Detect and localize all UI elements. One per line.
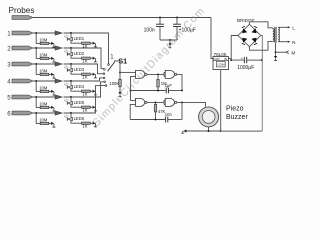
svg-text:10M: 10M <box>39 118 48 123</box>
svg-text:1K: 1K <box>82 123 87 128</box>
resistor 1M <box>157 80 159 87</box>
probe P1 <box>12 31 33 35</box>
wire 47K stub <box>155 102 157 104</box>
wire buffer 1 output to switch <box>64 33 109 64</box>
svg-text:LED4: LED4 <box>74 84 85 89</box>
svg-text:1K: 1K <box>82 58 87 63</box>
wire LED3 to 1K <box>71 72 81 74</box>
svg-text:1K: 1K <box>82 91 87 96</box>
wire 78L05 IN <box>229 58 244 60</box>
buffer U1 <box>55 31 62 35</box>
wire osc2 feedback bottom <box>130 119 165 121</box>
bridge diode D4 <box>252 38 258 45</box>
ground mains earth <box>274 56 277 60</box>
buffer U4 <box>55 79 62 83</box>
wire nand3 enable input <box>131 91 136 101</box>
switch S1 wiper <box>108 62 115 71</box>
node nand4 out junction <box>181 101 183 103</box>
bridge diode D3 <box>242 38 248 45</box>
transformer T1 core <box>275 27 276 43</box>
svg-text:OUT: OUT <box>213 57 220 61</box>
gate U2B nand2 input tie <box>164 72 165 76</box>
svg-text:10M: 10M <box>39 38 48 43</box>
wire osc1 feedback bottom <box>131 90 166 92</box>
node 47K bottom junction <box>155 119 157 121</box>
ground row 3 input <box>51 73 55 78</box>
ground row 6 input <box>51 122 55 127</box>
probe P2 <box>12 46 33 50</box>
buffer U2 <box>55 46 62 50</box>
transformer T1 secondary <box>273 28 274 42</box>
wire buffer 5 output to switch <box>64 82 104 97</box>
wire 1K to ground row 1 <box>90 42 92 44</box>
regulator 78L05 box <box>213 57 229 70</box>
svg-text:LED5: LED5 <box>74 100 85 105</box>
gate U2D nand4 input tie <box>164 100 165 104</box>
wire probe 4 to buffer <box>33 80 55 82</box>
switch S1 contacts <box>108 64 110 66</box>
capacitor 10n <box>166 117 168 123</box>
wire 1K to ground row 4 <box>90 90 92 92</box>
wire top supply rail <box>33 17 211 19</box>
resistor 1K row 4 <box>82 90 91 92</box>
wire LED stub 5 <box>70 97 72 101</box>
wire nand1 feedback input <box>131 76 136 90</box>
node junction probe 6 <box>35 112 37 114</box>
wire pole to gate input <box>120 71 136 73</box>
svg-text:10M: 10M <box>39 69 48 74</box>
wire LED stub 1 <box>70 33 72 37</box>
gate U2A nand1 <box>136 70 148 78</box>
LED2 <box>64 49 72 56</box>
resistor 1K row 3 <box>82 73 91 75</box>
node 1M bottom junction <box>157 90 159 92</box>
resistor 10M row 3 <box>40 73 49 75</box>
wire bridge plus to regulator <box>231 36 238 61</box>
node nand1 out junction <box>157 73 159 75</box>
node nand2 drop junction <box>181 89 183 91</box>
wire 10M branch 2 <box>36 48 40 58</box>
svg-text:COM: COM <box>217 63 225 67</box>
wire nand2 output <box>177 74 182 90</box>
wire 10M branch 3 <box>36 64 40 74</box>
svg-text:LED6: LED6 <box>74 116 85 121</box>
wire terminal M <box>276 51 287 53</box>
svg-text:LED1: LED1 <box>74 36 85 41</box>
terminal M arrow <box>286 51 289 54</box>
wire probe 5 to buffer <box>33 96 55 98</box>
ground 100K <box>118 92 121 96</box>
LED6 <box>64 114 72 121</box>
node junction probe 3 <box>35 63 37 65</box>
svg-text:10n: 10n <box>165 112 173 117</box>
wire probe 3 to buffer <box>33 63 55 65</box>
wire nand3 output <box>147 101 164 103</box>
wire 10M branch 4 <box>36 81 40 91</box>
ground row 1 led <box>93 42 97 47</box>
ground row 4 led <box>93 90 97 95</box>
resistor 10M row 2 <box>40 57 49 59</box>
wire gnd vertical <box>261 60 263 131</box>
wire 10M branch 1 <box>36 33 40 43</box>
node COM rail junction <box>220 130 222 132</box>
capacitor 100uF <box>173 18 181 41</box>
terminal L arrow <box>288 26 291 28</box>
wire LED stub 4 <box>70 81 72 85</box>
resistor 1K row 6 <box>82 122 91 124</box>
svg-text:Piezo: Piezo <box>226 106 244 113</box>
ground row 4 input <box>51 90 55 95</box>
wire bridge minus to gnd <box>261 36 263 61</box>
gate U2B nand2 <box>165 70 177 78</box>
wire earth drop <box>275 43 277 53</box>
wire 10M to ground row 2 <box>49 57 51 59</box>
wire nand4 out drop <box>181 102 183 119</box>
wire buzzer to rail <box>208 127 210 131</box>
probe common <box>12 16 33 20</box>
wire 10M to ground row 1 <box>49 42 51 44</box>
wire 1K to ground row 6 <box>90 122 92 124</box>
resistor 47K <box>154 105 156 112</box>
ground row 2 input <box>51 57 55 62</box>
svg-text:10M: 10M <box>39 53 48 58</box>
terminal N arrow <box>288 41 291 43</box>
resistor 10M row 1 <box>40 42 49 44</box>
svg-text:IN: IN <box>224 57 227 61</box>
wire 1M stub <box>157 74 159 79</box>
wire pole to 100K <box>119 72 121 79</box>
svg-text:10M: 10M <box>39 102 48 107</box>
svg-text:M: M <box>291 51 295 56</box>
wire 1000uF to gnd line <box>247 59 262 61</box>
node junction probe 4 <box>35 80 37 82</box>
wire LED5 to 1K <box>71 105 81 107</box>
wire caps ground stub <box>169 40 171 43</box>
transformer T1 primary <box>278 27 279 41</box>
wire 10M branch 6 <box>36 113 40 123</box>
LED3 <box>64 65 72 72</box>
node earth junction <box>275 51 277 53</box>
wire LED1 to 1K <box>71 41 81 43</box>
ground filter caps <box>168 43 171 47</box>
svg-text:Buzzer: Buzzer <box>226 114 248 121</box>
ground row 2 led <box>93 57 97 62</box>
node gnd line junction <box>261 59 263 61</box>
node IN junction <box>230 59 232 61</box>
LED5 <box>64 98 72 105</box>
resistor 10M row 5 <box>40 106 49 108</box>
node junction probe 2 <box>35 47 37 49</box>
node buzzer rail junction <box>208 130 210 132</box>
wire ground rail <box>186 130 221 132</box>
svg-text:6: 6 <box>7 111 11 118</box>
wire regulator OUT drop <box>211 18 213 59</box>
wire 100K to ground <box>119 87 121 92</box>
wire 10M to ground row 3 <box>49 73 51 75</box>
wire LED4 to 1K <box>71 89 81 91</box>
bridge diode D1 <box>242 26 248 33</box>
wire probe 1 to buffer <box>33 32 55 34</box>
wire S1 pole <box>115 61 120 73</box>
node pole junction <box>119 71 121 73</box>
node nand3 out junction <box>155 101 157 103</box>
svg-text:3: 3 <box>7 62 11 69</box>
svg-text:1: 1 <box>7 31 11 38</box>
buffer U5 <box>55 95 62 99</box>
ground row 1 input <box>51 42 55 47</box>
node LED junction 3 <box>70 63 72 65</box>
svg-text:1000µF: 1000µF <box>237 65 254 71</box>
ground row 5 input <box>51 106 55 111</box>
wire terminal N <box>278 41 288 43</box>
gate U2C nand3 <box>136 98 148 106</box>
svg-text:10M: 10M <box>39 86 48 91</box>
wire 10M to ground row 4 <box>49 90 51 92</box>
wire LED stub 6 <box>70 113 72 117</box>
wire LED6 to 1K <box>71 121 81 123</box>
wire 1K to ground row 5 <box>90 106 92 108</box>
wire 1K to ground row 3 <box>90 73 92 75</box>
bridge diode D2 <box>252 26 258 33</box>
node junction probe 5 <box>35 96 37 98</box>
capacitor 1uF <box>166 88 168 94</box>
wire LED stub 2 <box>70 48 72 52</box>
svg-text:4: 4 <box>7 79 11 86</box>
node cap junction top rail 100n <box>159 17 161 19</box>
node junction probe 1 <box>35 32 37 34</box>
capacitor 100n <box>156 18 164 41</box>
svg-text:+: + <box>241 56 243 60</box>
ground row 6 led <box>93 122 97 127</box>
ground row 5 led <box>93 106 97 111</box>
wire buffer 2 output to switch <box>64 48 104 68</box>
gate U2D nand4 <box>165 98 177 106</box>
buffer U3 <box>55 62 62 66</box>
wire LED2 to 1K <box>71 56 81 58</box>
wire 10M to ground row 6 <box>49 122 51 124</box>
svg-text:LED3: LED3 <box>74 67 85 72</box>
resistor 1K row 1 <box>82 42 91 44</box>
probe P6 <box>12 111 33 115</box>
svg-text:100n: 100n <box>144 27 155 33</box>
node caps ground junction <box>169 39 171 41</box>
svg-text:N: N <box>292 40 295 45</box>
wire terminal L <box>278 26 288 28</box>
wire earth to ground <box>275 52 277 56</box>
svg-text:2: 2 <box>7 46 11 53</box>
wire probe 6 to buffer <box>33 112 55 114</box>
wire nand3 feedback input <box>130 104 135 119</box>
wire 47K bottom <box>155 112 157 120</box>
probe P5 <box>12 95 33 99</box>
wire 1K to ground row 2 <box>90 57 92 59</box>
resistor 1K row 2 <box>82 57 91 59</box>
node cap junction top rail 100uF <box>176 17 178 19</box>
node LED junction 5 <box>70 96 72 98</box>
svg-text:1µF: 1µF <box>165 83 173 88</box>
resistor 10M row 4 <box>40 90 49 92</box>
wire cap to nand2 drop <box>168 90 182 92</box>
wire nand4 output to buzzer <box>177 102 206 107</box>
resistor 10M row 6 <box>40 122 49 124</box>
svg-text:100K: 100K <box>109 81 119 86</box>
svg-text:Probes: Probes <box>9 6 35 15</box>
wire caps ground bus <box>160 39 177 41</box>
svg-text:5: 5 <box>7 95 11 102</box>
node LED junction 2 <box>70 47 72 49</box>
capacitor 1000uF <box>244 57 246 63</box>
wire bridge AC top <box>249 22 272 28</box>
wire ground rail gray segment <box>221 130 262 132</box>
wire buffer 3 output to switch <box>64 64 104 74</box>
wire 1M bottom <box>157 87 159 91</box>
resistor 1K row 5 <box>82 106 91 108</box>
LED1 <box>64 34 72 41</box>
wire nand1 output <box>147 73 164 75</box>
svg-text:L: L <box>292 26 295 31</box>
svg-text:1K: 1K <box>82 74 87 79</box>
piezo buzzer LS1 <box>199 107 219 127</box>
node feedback junction <box>130 90 132 92</box>
bridge rectifier diamond <box>238 24 261 46</box>
wire bridge AC bottom <box>249 41 272 50</box>
wire 10M branch 5 <box>36 97 40 107</box>
wire 78L05 COM to ground rail <box>220 70 222 131</box>
wire buffer 6 output to switch <box>64 86 106 113</box>
probe P3 <box>12 62 33 66</box>
LED4 <box>64 82 72 89</box>
resistor 100K <box>119 79 121 86</box>
wire LED stub 3 <box>70 64 72 68</box>
wire 10n to nand4 drop <box>168 119 182 121</box>
buffer U6 <box>55 111 62 115</box>
probe P4 <box>12 79 33 83</box>
ground row 3 led <box>93 73 97 78</box>
wire 10M to ground row 5 <box>49 106 51 108</box>
svg-text:LED2: LED2 <box>74 51 85 56</box>
node LED junction 6 <box>70 112 72 114</box>
node LED junction 4 <box>70 80 72 82</box>
wire buffer 4 output to switch <box>64 78 104 81</box>
wire probe 2 to buffer <box>33 47 55 49</box>
svg-text:1K: 1K <box>82 107 87 112</box>
ground rail left arrow <box>181 129 186 133</box>
node LED junction 1 <box>70 32 72 34</box>
